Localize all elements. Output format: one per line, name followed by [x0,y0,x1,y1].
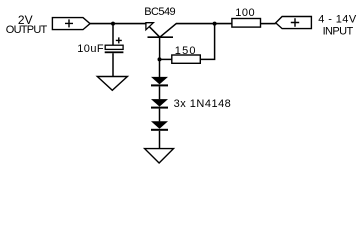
wire collector to node B [176,23,232,25]
transistor Q1 BC549 [146,23,177,60]
node C junction dot [158,57,162,61]
ground (capacitor) [97,77,127,91]
wire diode D3 to ground [159,131,161,149]
emitter wire [146,23,160,37]
wire diode D2 to diode D3 [159,109,161,122]
ground (diode chain) [145,149,174,163]
resistor R2 150 [172,55,201,63]
emitter arrow [146,23,154,30]
input terminal tag [276,17,312,29]
base lead [159,37,161,59]
svg-text:INPUT: INPUT [323,25,354,37]
wire resistor R1 to input tag [261,23,276,25]
svg-text:100: 100 [235,7,255,19]
svg-text:3x 1N4148: 3x 1N4148 [174,98,232,110]
wire node A down to capacitor [112,24,114,46]
wire node B down to resistor R2 [200,24,214,60]
capacitor C1 10uF [105,45,124,53]
wire diode D1 to diode D2 [159,86,161,99]
wire resistor R2 to node C [160,58,172,60]
output terminal tag [52,18,90,30]
collector wire [160,23,177,37]
diode D2 [151,99,168,109]
capacitor C1 10uF polarity plus [116,37,122,43]
svg-text:BC549: BC549 [144,6,175,18]
svg-text:4 - 14V: 4 - 14V [318,14,357,26]
svg-text:10uF: 10uF [77,43,104,55]
wire output tag to emitter [90,23,146,25]
wire capacitor to ground [112,53,114,76]
node A junction dot [111,22,115,26]
wire node C to diode D1 [159,59,161,77]
diode D3 [151,121,168,131]
resistor R1 100 [232,19,261,28]
diode D1 [151,77,168,87]
node B junction dot [213,22,217,26]
svg-text:OUTPUT: OUTPUT [6,24,48,36]
base bar [148,36,174,38]
